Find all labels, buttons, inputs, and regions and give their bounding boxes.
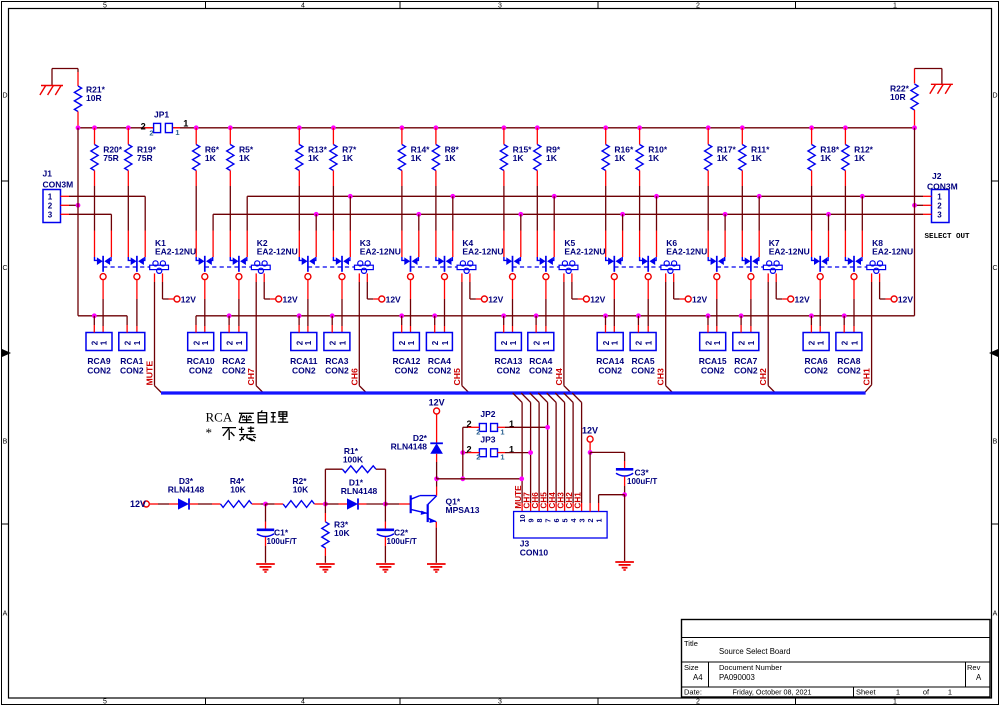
svg-text:75R: 75R [103, 153, 119, 163]
net label CH6 J3 side [531, 492, 540, 509]
svg-text:D: D [992, 93, 997, 100]
svg-text:10K: 10K [230, 485, 246, 495]
wire K1 coil to 12V [163, 273, 175, 299]
svg-text:3: 3 [937, 211, 942, 220]
svg-text:2: 2 [808, 340, 817, 345]
wire select tap upper g3 [450, 194, 455, 257]
connector RCA1 CON2 [119, 333, 145, 376]
svg-text:5: 5 [103, 698, 107, 705]
svg-text:C: C [2, 265, 7, 272]
svg-text:1K: 1K [308, 153, 320, 163]
svg-text:B: B [3, 439, 8, 446]
wire J1 pin3 to K1 contact [61, 214, 112, 257]
wire K3 coil to bus net CH6 [359, 273, 366, 393]
svg-text:1: 1 [713, 340, 722, 345]
12V terminal D2 [429, 398, 445, 415]
resistor R15 [500, 125, 532, 257]
svg-text:CON2: CON2 [598, 366, 622, 376]
connector RCA2 CON2 [221, 333, 247, 376]
wire C3 to ground node [622, 477, 627, 561]
svg-text:Document Number: Document Number [719, 663, 782, 672]
svg-text:1: 1 [304, 340, 313, 345]
wire select tap upper g4 [552, 194, 557, 257]
svg-text:of: of [923, 688, 930, 697]
resistor R18 [808, 125, 840, 257]
svg-text:RLN4148: RLN4148 [341, 486, 378, 496]
svg-text:2: 2 [295, 340, 304, 345]
resistor R8 [432, 125, 459, 257]
wire C2 to ground [384, 537, 386, 563]
svg-text:EA2-12NU: EA2-12NU [872, 246, 913, 256]
12V terminal K7 [788, 295, 810, 305]
svg-text:2: 2 [329, 340, 338, 345]
power ground C3 [615, 562, 634, 571]
svg-text:RCA1: RCA1 [120, 356, 143, 366]
svg-text:D: D [2, 93, 7, 100]
svg-text:Friday, October 08, 2021: Friday, October 08, 2021 [733, 688, 812, 697]
svg-text:RCA5: RCA5 [632, 356, 655, 366]
connector RCA14 CON2 [596, 333, 624, 376]
connector RCA7 CON2 [733, 333, 759, 376]
wire K1 pole A to RCA pin1 [102, 279, 104, 332]
svg-text:RLN4148: RLN4148 [391, 441, 428, 451]
svg-text:2: 2 [841, 340, 850, 345]
svg-text:Rev: Rev [967, 663, 981, 672]
capacitor C1 [257, 527, 297, 546]
wire Q1 emitter to ground [435, 522, 437, 563]
wire RCA4 pin2 to shield [534, 313, 539, 332]
wire K2 coil to bus net CH7 [256, 273, 263, 393]
resistor R12 [842, 125, 874, 257]
wire select tap upper g2 [348, 194, 353, 257]
svg-text:3: 3 [48, 211, 53, 220]
net label CH4 relay side [554, 368, 564, 386]
power ground Q1 [427, 564, 446, 573]
wire K2 pole B to RCA pin1 [238, 279, 240, 332]
wire K7 pole B to RCA pin1 [750, 279, 752, 332]
connector RCA5 CON2 [630, 333, 656, 376]
svg-text:C3*: C3* [635, 467, 650, 477]
svg-text:CON10: CON10 [520, 548, 549, 558]
wire D1 to node N3 [358, 502, 388, 507]
net label MUTE J3 side [514, 485, 523, 509]
wire N2 to R3 [324, 504, 326, 522]
svg-text:J2: J2 [932, 171, 942, 181]
connector RCA4 CON2 [528, 333, 554, 376]
resistor R3 [322, 520, 351, 549]
bus CH/MUTE blue [161, 391, 866, 394]
wire select tap lower g7 [826, 212, 831, 257]
connector RCA11 CON2 [290, 333, 318, 376]
resistor R6 [193, 125, 220, 257]
svg-text:EA2-12NU: EA2-12NU [769, 246, 810, 256]
resistor R9 [534, 125, 561, 257]
wire 12V to D3 [149, 503, 178, 505]
net label CH7 relay side [246, 368, 256, 386]
wire K5 pole B to RCA pin1 [545, 279, 547, 332]
svg-text:CH3: CH3 [656, 368, 666, 386]
svg-text:100uF/T: 100uF/T [387, 537, 417, 546]
wire N1 to C1 [265, 504, 267, 530]
svg-text:2: 2 [937, 202, 942, 211]
svg-text:Title: Title [684, 639, 698, 648]
connector RCA13 CON2 [494, 333, 522, 376]
svg-text:RCA6: RCA6 [805, 356, 828, 366]
capacitor C2 [377, 527, 417, 546]
svg-text:B: B [993, 439, 998, 446]
svg-text:1: 1 [441, 340, 450, 345]
svg-text:1: 1 [595, 519, 604, 523]
svg-text:2: 2 [225, 340, 234, 345]
svg-text:SELECT OUT: SELECT OUT [925, 233, 971, 241]
12V terminal K2 [276, 295, 298, 305]
net label CH4 J3 side [548, 492, 557, 509]
svg-text:1: 1 [133, 340, 142, 345]
svg-text:2: 2 [500, 340, 509, 345]
svg-text:CH1: CH1 [862, 368, 872, 386]
wire J1 pin1 to K1 contact [61, 196, 146, 257]
svg-text:2: 2 [141, 121, 146, 131]
resistor R2 [283, 476, 314, 507]
svg-text:1K: 1K [854, 153, 866, 163]
svg-text:1: 1 [937, 193, 942, 202]
wire RCA2 pin2 to shield [227, 313, 232, 332]
svg-text:CH4: CH4 [554, 368, 564, 386]
svg-text:3: 3 [498, 698, 502, 705]
svg-text:PA090003: PA090003 [719, 673, 755, 682]
svg-text:1: 1 [850, 340, 859, 345]
resistor R1 [342, 446, 376, 473]
svg-text:2: 2 [635, 340, 644, 345]
wire K6 coil to bus net CH3 [666, 273, 673, 393]
wire select tap lower g5 [620, 212, 625, 257]
resistor R14 [398, 125, 430, 257]
svg-text:75R: 75R [137, 153, 153, 163]
svg-text:12V: 12V [582, 426, 598, 436]
wire select line upper [247, 196, 931, 257]
svg-text:12V: 12V [898, 295, 913, 305]
wire 12V node to C3 [590, 452, 625, 469]
svg-text:1K: 1K [445, 153, 457, 163]
svg-text:10K: 10K [293, 485, 309, 495]
svg-text:1: 1 [48, 193, 53, 202]
annotation text [206, 410, 289, 442]
svg-text:12V: 12V [429, 398, 445, 408]
svg-text:1: 1 [542, 340, 551, 345]
relay K8 EA2-12NU [812, 238, 914, 280]
wire J3 pin1 to ground node [599, 495, 625, 512]
wire select tap lower g3 [416, 212, 421, 257]
power ground C1 [256, 564, 275, 573]
wire bus to J3 net CH4 [547, 393, 556, 512]
svg-text:EA2-12NU: EA2-12NU [462, 246, 503, 256]
connector J2 CON3M [925, 171, 971, 241]
diode D2 RLN4148 [391, 433, 443, 454]
svg-text:10K: 10K [334, 528, 350, 538]
svg-text:CON2: CON2 [87, 366, 111, 376]
12V terminal K5 [583, 295, 605, 305]
svg-text:CON2: CON2 [395, 366, 419, 376]
svg-text:1K: 1K [205, 153, 217, 163]
svg-text:12V: 12V [181, 295, 196, 305]
wire select tap upper g7 [860, 194, 865, 257]
net label CH1 relay side [862, 368, 872, 386]
svg-text:CH1: CH1 [573, 492, 582, 509]
svg-text:EA2-12NU: EA2-12NU [360, 246, 401, 256]
12V terminal K1 [174, 295, 196, 305]
svg-text:2: 2 [192, 340, 201, 345]
net label CH2 J3 side [565, 492, 574, 509]
svg-text:EA2-12NU: EA2-12NU [666, 246, 707, 256]
svg-text:1: 1 [893, 2, 897, 9]
svg-text:CH6: CH6 [349, 368, 359, 386]
12V terminal J3 [582, 426, 598, 443]
wire R3 to ground [324, 548, 326, 563]
12V terminal input [130, 499, 149, 509]
wire K4 pole A to RCA pin1 [410, 279, 412, 332]
svg-text:2: 2 [704, 340, 713, 345]
svg-text:1K: 1K [751, 153, 763, 163]
wire bus to J3 net CH3 [555, 393, 564, 512]
wire RCA13 pin2 to shield [501, 313, 506, 332]
svg-text:CH7: CH7 [246, 368, 256, 386]
connector RCA10 CON2 [187, 333, 215, 376]
wire ground bus top [78, 127, 915, 129]
svg-text:CON2: CON2 [529, 366, 553, 376]
wire K8 pole A to RCA pin1 [819, 279, 821, 332]
wire bus to J3 net CH7 [521, 393, 530, 512]
svg-text:A: A [976, 673, 982, 682]
svg-text:CON2: CON2 [292, 366, 316, 376]
svg-text:RCA: RCA [206, 410, 233, 425]
svg-text:Size: Size [684, 663, 699, 672]
connector RCA12 CON2 [392, 333, 420, 376]
wire RCA6 pin2 to shield [809, 313, 814, 332]
wire K2 coil to 12V [264, 273, 276, 299]
connector RCA15 CON2 [699, 333, 727, 376]
resistor R7 [330, 125, 357, 257]
jumper JP3 [466, 434, 514, 461]
wire N1 to R2 [266, 503, 284, 505]
connector J1 CON3M [43, 169, 74, 223]
wire K7 pole A to RCA pin1 [716, 279, 718, 332]
svg-text:CON2: CON2 [631, 366, 655, 376]
wire 12V to J3 pin2 [588, 442, 593, 512]
chassis ground left [40, 86, 63, 96]
svg-text:CON2: CON2 [428, 366, 452, 376]
svg-text:2: 2 [91, 340, 100, 345]
svg-text:C1*: C1* [274, 527, 289, 537]
svg-text:2: 2 [431, 340, 440, 345]
svg-text:CON2: CON2 [701, 366, 725, 376]
svg-text:1: 1 [201, 340, 210, 345]
svg-text:Date:: Date: [684, 688, 702, 697]
wire ground column right [914, 128, 916, 316]
resistor R4 [221, 476, 252, 507]
svg-text:CON2: CON2 [189, 366, 213, 376]
svg-text:CON2: CON2 [222, 366, 246, 376]
svg-text:2: 2 [476, 453, 480, 462]
wire RCA1 pin2 to shield [126, 316, 128, 333]
12V terminal K4 [481, 295, 503, 305]
svg-text:RCA13: RCA13 [494, 356, 522, 366]
svg-text:4: 4 [301, 2, 305, 9]
svg-text:100K: 100K [343, 455, 364, 465]
wire JP3 pin2 [460, 450, 479, 455]
wire K6 pole A to RCA pin1 [613, 279, 615, 332]
wire RCA12 pin2 to shield [399, 313, 404, 332]
svg-text:1K: 1K [411, 153, 423, 163]
relay K6 EA2-12NU [606, 238, 708, 280]
svg-text:2: 2 [602, 340, 611, 345]
net label CH1 J3 side [573, 492, 582, 509]
svg-text:1: 1 [611, 340, 620, 345]
wire K8 coil to 12V [880, 273, 892, 299]
svg-text:RCA4: RCA4 [428, 356, 451, 366]
svg-text:RCA14: RCA14 [596, 356, 624, 366]
svg-text:J1: J1 [43, 169, 53, 179]
wire K1 coil to bus net MUTE [155, 273, 162, 393]
wire N3 to C2 [384, 504, 386, 530]
capacitor C3 [616, 467, 657, 486]
svg-text:RCA8: RCA8 [837, 356, 860, 366]
12V terminal K8 [891, 295, 913, 305]
svg-text:CON2: CON2 [497, 366, 521, 376]
svg-text:2: 2 [123, 340, 132, 345]
wire K7 coil to bus net CH2 [768, 273, 775, 393]
svg-text:2: 2 [398, 340, 407, 345]
svg-text:1K: 1K [648, 153, 660, 163]
net label CH5 relay side [452, 368, 462, 386]
net label CH7 J3 side [522, 492, 531, 509]
wire select tap lower g4 [518, 212, 523, 257]
svg-text:EA2-12NU: EA2-12NU [257, 246, 298, 256]
svg-text:C: C [992, 265, 997, 272]
wire bus to J3 net MUTE [513, 393, 522, 512]
wire D2 to node [436, 454, 438, 479]
svg-text:5: 5 [103, 2, 107, 9]
relay K5 EA2-12NU [504, 238, 606, 280]
12V terminal K3 [379, 295, 401, 305]
power ground C2 [376, 564, 395, 573]
wire 12V to D2 [436, 414, 438, 443]
relay K3 EA2-12NU [299, 238, 401, 280]
svg-text:*: * [206, 425, 213, 440]
wire K3 pole B to RCA pin1 [341, 279, 343, 332]
svg-text:2: 2 [696, 698, 700, 705]
wire JP2 pin2 [463, 426, 480, 428]
svg-text:1K: 1K [717, 153, 729, 163]
svg-text:MPSA13: MPSA13 [446, 505, 480, 515]
net label CH2 relay side [758, 368, 768, 386]
wire bus to J3 net CH5 [538, 393, 547, 512]
svg-text:1: 1 [338, 340, 347, 345]
wire JP vertical [460, 427, 465, 481]
wire RCA10 pin2 to shield [195, 316, 197, 333]
wire J1 pin2 to ground column [61, 203, 81, 208]
svg-text:RCA15: RCA15 [699, 356, 727, 366]
svg-text:A: A [993, 611, 998, 618]
svg-text:RCA12: RCA12 [392, 356, 420, 366]
wire K5 pole A to RCA pin1 [512, 279, 514, 332]
wire K3 pole A to RCA pin1 [307, 279, 309, 332]
wire K7 coil to 12V [776, 273, 788, 299]
wire select tap upper g6 [757, 194, 762, 257]
relay K1 EA2-12NU [95, 238, 197, 280]
wire select line lower [213, 214, 931, 257]
svg-text:CON3M: CON3M [43, 179, 74, 189]
wire R21 top link [52, 69, 78, 86]
connector RCA4 CON2 [426, 333, 452, 376]
svg-text:1: 1 [99, 340, 108, 345]
svg-text:JP2: JP2 [480, 409, 495, 419]
svg-text:100uF/T: 100uF/T [267, 537, 297, 546]
wire K1 pole B to RCA pin1 [136, 279, 138, 332]
svg-text:1: 1 [896, 688, 900, 697]
wire RCA8 pin2 to shield [842, 313, 847, 332]
svg-text:RCA7: RCA7 [734, 356, 757, 366]
svg-text:JP3: JP3 [480, 434, 495, 444]
svg-text:A: A [3, 611, 8, 618]
svg-text:CON2: CON2 [804, 366, 828, 376]
resistor R16 [602, 125, 634, 257]
wire K4 pole B to RCA pin1 [444, 279, 446, 332]
svg-text:1: 1 [500, 427, 504, 436]
svg-text:Sheet: Sheet [856, 688, 877, 697]
wire D3 to R4 [189, 503, 220, 505]
wire K3 coil to 12V [367, 273, 379, 299]
svg-text:1: 1 [500, 453, 504, 462]
svg-text:1: 1 [747, 340, 756, 345]
svg-text:1: 1 [407, 340, 416, 345]
relay K2 EA2-12NU [196, 238, 298, 280]
svg-text:12V: 12V [590, 295, 605, 305]
wire K5 coil to bus net CH4 [564, 273, 571, 393]
svg-text:1K: 1K [342, 153, 354, 163]
svg-text:1: 1 [183, 119, 188, 129]
connector J3 CON10 [514, 512, 608, 558]
wire J2 pin2 to ground column [912, 203, 931, 208]
wire RCA14 pin2 to shield [603, 313, 608, 332]
svg-text:MUTE: MUTE [145, 361, 155, 386]
wire RCA7 pin2 to shield [739, 313, 744, 332]
svg-text:2: 2 [696, 2, 700, 9]
wire R22 top link [915, 69, 942, 85]
junction bus right [912, 125, 917, 130]
resistor R19 [125, 125, 157, 257]
svg-text:1: 1 [645, 340, 654, 345]
junction bus left [76, 125, 81, 130]
jumper JP2 [466, 409, 514, 436]
svg-text:1K: 1K [820, 153, 832, 163]
net label CH3 J3 side [556, 492, 565, 509]
svg-text:CON2: CON2 [325, 366, 349, 376]
wire bus to J3 net CH2 [564, 393, 573, 512]
svg-text:12V: 12V [692, 295, 707, 305]
svg-text:1K: 1K [513, 153, 525, 163]
wire ground column left [77, 128, 79, 316]
svg-text:RCA3: RCA3 [325, 356, 348, 366]
svg-text:CON2: CON2 [120, 366, 144, 376]
svg-text:10R: 10R [890, 92, 906, 102]
connector RCA9 CON2 [86, 333, 112, 376]
svg-text:12V: 12V [795, 295, 810, 305]
svg-text:12V: 12V [130, 499, 146, 509]
wire K2 pole A to RCA pin1 [204, 279, 206, 332]
svg-text:2: 2 [149, 128, 153, 137]
svg-text:1: 1 [817, 340, 826, 345]
svg-text:4: 4 [301, 698, 305, 705]
